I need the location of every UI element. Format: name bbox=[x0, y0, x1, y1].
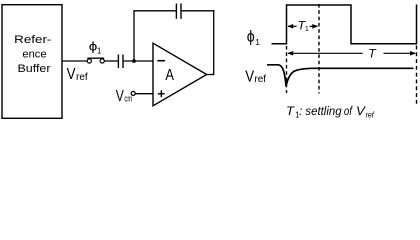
switch S1 bbox=[87, 58, 104, 63]
reference buffer box U1 bbox=[2, 5, 62, 119]
capacitor C1 (input sampling cap) bbox=[118, 55, 123, 69]
svg-text::: : bbox=[299, 104, 302, 118]
timing diagram: phi1 net label bbox=[247, 28, 260, 47]
wire feedback right vertical to output bbox=[213, 10, 215, 75]
svg-text:settling: settling bbox=[305, 104, 341, 118]
svg-text:of: of bbox=[344, 104, 353, 118]
wire Vcm to non-inverting input bbox=[135, 93, 153, 95]
svg-text:Buffer: Buffer bbox=[18, 63, 51, 75]
svg-text:ref: ref bbox=[76, 72, 88, 83]
svg-text:1: 1 bbox=[255, 37, 260, 47]
node summing junction dot bbox=[132, 59, 136, 63]
T1 interval label bbox=[298, 20, 309, 33]
T period arrow bbox=[287, 51, 416, 56]
svg-text:cm: cm bbox=[124, 94, 132, 104]
svg-text:Refer-: Refer- bbox=[14, 34, 52, 46]
switch phi1 label bbox=[89, 40, 102, 56]
wire feedback left vertical bbox=[133, 11, 135, 61]
op-amp A bbox=[153, 43, 207, 106]
Vref net label bbox=[245, 68, 266, 85]
dashed line at end of T1 bbox=[318, 4, 320, 94]
svg-text:ref: ref bbox=[254, 74, 266, 85]
wire switch to capacitor C1 bbox=[104, 60, 118, 62]
wire capacitor to op-amp inverting input bbox=[123, 60, 153, 62]
dashed line at rising edge bbox=[286, 46, 288, 93]
phi1 clock waveform bbox=[272, 5, 417, 44]
svg-text:V: V bbox=[67, 66, 76, 83]
capacitor C2 (feedback integrating cap) bbox=[176, 4, 181, 19]
svg-text:V: V bbox=[116, 88, 124, 105]
terminal Vcm bbox=[131, 91, 135, 95]
svg-text:1: 1 bbox=[305, 26, 309, 33]
node Vcm label bbox=[116, 88, 132, 105]
svg-text:ence: ence bbox=[22, 49, 46, 61]
T1 interval arrows bbox=[287, 24, 318, 29]
dashed line at period end bbox=[416, 46, 418, 105]
svg-text:1: 1 bbox=[97, 46, 102, 55]
svg-text:ref: ref bbox=[366, 110, 375, 119]
svg-text:V: V bbox=[245, 68, 254, 85]
svg-text:T: T bbox=[368, 46, 377, 60]
wire feedback top right bbox=[181, 10, 214, 12]
svg-text:A: A bbox=[165, 67, 174, 84]
svg-text:ϕ: ϕ bbox=[247, 28, 255, 45]
wire feedback top left bbox=[133, 10, 176, 12]
node Vref label bbox=[67, 66, 88, 83]
wire op-amp output bbox=[206, 74, 215, 76]
wire buffer output to switch bbox=[62, 60, 87, 62]
caption T1 settling of Vref bbox=[286, 104, 374, 120]
Vref settling waveform bbox=[267, 65, 414, 87]
